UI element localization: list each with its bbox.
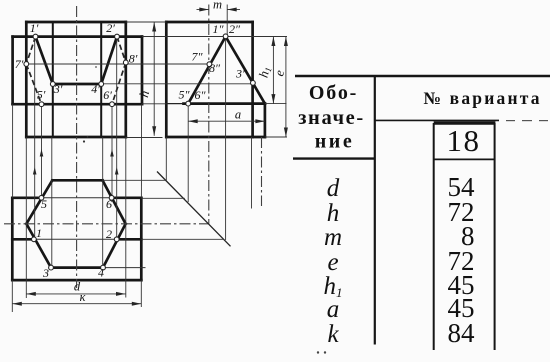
- svg-text:8′: 8′: [129, 52, 138, 66]
- svg-text:m: m: [213, 0, 222, 12]
- svg-text:6″: 6″: [195, 88, 207, 102]
- svg-text:ние: ние: [315, 131, 354, 153]
- svg-text:4′: 4′: [91, 82, 100, 96]
- svg-text:h: h: [327, 200, 340, 227]
- svg-text:d: d: [327, 175, 340, 202]
- svg-text:3: 3: [42, 266, 49, 280]
- svg-text:3″: 3″: [235, 67, 248, 81]
- svg-text:к: к: [80, 290, 86, 304]
- svg-text:84: 84: [448, 318, 476, 348]
- svg-text:1: 1: [36, 226, 42, 240]
- svg-text:2″: 2″: [229, 22, 241, 36]
- svg-text:7″: 7″: [192, 50, 204, 64]
- svg-text:значе-: значе-: [298, 107, 365, 129]
- svg-text:8″: 8″: [209, 61, 221, 75]
- svg-text:5′: 5′: [37, 88, 46, 102]
- svg-text:6′: 6′: [103, 88, 112, 102]
- svg-text:Обо-: Обо-: [309, 82, 358, 104]
- svg-text:5: 5: [41, 197, 47, 211]
- svg-text:h: h: [136, 89, 152, 99]
- svg-text:a: a: [235, 108, 241, 122]
- svg-text:2: 2: [106, 227, 112, 241]
- svg-text:18: 18: [447, 123, 481, 158]
- svg-text:m: m: [324, 224, 342, 251]
- svg-text:1″: 1″: [213, 22, 225, 36]
- svg-text:4: 4: [98, 266, 104, 280]
- svg-text:3′: 3′: [53, 82, 63, 96]
- svg-text:a: a: [327, 296, 340, 323]
- svg-text:№ варианта: № варианта: [423, 88, 541, 108]
- svg-text:1′: 1′: [30, 21, 39, 35]
- svg-text:5″: 5″: [179, 88, 191, 102]
- svg-text:6: 6: [106, 197, 112, 211]
- svg-text:k: k: [327, 321, 339, 348]
- svg-text:2′: 2′: [106, 21, 115, 35]
- svg-text:7′: 7′: [15, 57, 24, 71]
- svg-text:e: e: [327, 249, 338, 276]
